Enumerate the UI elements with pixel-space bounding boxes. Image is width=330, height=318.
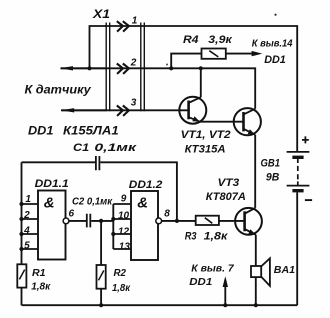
wire: VT3 emitter to speaker: [255, 235, 257, 266]
capacitor C1 plates: [96, 156, 100, 170]
svg-text:10: 10: [118, 211, 130, 222]
node: junction feedback / pin 8: [175, 219, 179, 223]
arrow: К датчику upper arrowhead: [60, 66, 73, 70]
svg-text:1,8к: 1,8к: [112, 282, 131, 294]
gate DD1.2 body: [131, 191, 158, 260]
connector X1 contact chevrons pin 3: [117, 106, 123, 116]
svg-text:3: 3: [131, 98, 137, 109]
svg-text:R1: R1: [32, 267, 46, 279]
resistor R4 power mark: [209, 51, 218, 57]
svg-text:С2 0,1мк: С2 0,1мк: [72, 196, 113, 207]
svg-text:DD1: DD1: [264, 54, 286, 66]
arrow: К датчику lower arrowhead: [61, 108, 74, 112]
wire: C2 to DD1.2 input bus: [91, 220, 113, 222]
resistor R3 power mark: [205, 218, 213, 224]
speck noise near R4 lead: [166, 64, 168, 66]
gate DD1.1 pin stubs: [22, 204, 39, 249]
svg-text:1,8к: 1,8к: [31, 281, 51, 293]
svg-text:3,9к: 3,9к: [208, 34, 233, 46]
svg-text:GB1: GB1: [261, 157, 281, 169]
node: R2 on bottom rail: [99, 303, 103, 307]
wire: bottom rail: [22, 304, 298, 306]
connector X1 contact chevrons pin 2: [117, 64, 123, 74]
svg-text:BA1: BA1: [274, 264, 295, 276]
resistor R4 leads: [171, 54, 252, 69]
svg-text:К выв. 7: К выв. 7: [191, 263, 235, 275]
connector X1 left double line: [106, 23, 110, 112]
wire: R2 to bottom rail: [100, 289, 102, 306]
wire: net 1 top rail from connector corner to battery +: [90, 26, 298, 151]
svg-text:С1: С1: [73, 142, 89, 154]
svg-text:2: 2: [23, 210, 30, 221]
gate DD1.1 output inversion circle pin 6: [63, 218, 69, 224]
svg-text:13: 13: [119, 241, 131, 252]
gate DD1.2 pin stubs: [113, 204, 131, 249]
speck noise top right: [274, 14, 276, 16]
gate DD1.1 body: [38, 191, 66, 260]
wire: R3 to VT3 base: [219, 220, 245, 222]
svg-text:4: 4: [23, 226, 30, 237]
speaker BA1 body: [251, 266, 261, 277]
wire: net 2 horizontal to VT2 collector corner: [61, 68, 255, 109]
wire: pin 6 to C2: [69, 220, 86, 222]
wire: VT2 emitter down to VT3 collector: [254, 135, 256, 208]
node: junction R4 tap on wire 2: [169, 66, 173, 70]
svg-text:6: 6: [69, 208, 75, 219]
battery GB1 cell 2 short plate: [292, 189, 303, 192]
svg-text:9: 9: [121, 193, 127, 204]
battery GB1 cell 1 long plate: [287, 151, 310, 153]
resistor R2 power mark: [99, 271, 104, 281]
svg-text:&: &: [44, 195, 55, 212]
svg-text:12: 12: [118, 227, 130, 238]
battery GB1 cell 1 short plate: [292, 156, 303, 159]
node: bus junction pin12: [111, 232, 115, 236]
wire: left rail to R1: [21, 162, 23, 264]
transistor VT3: [235, 208, 262, 235]
svg-text:КТ807А: КТ807А: [206, 191, 246, 203]
svg-text:1,8к: 1,8к: [204, 231, 229, 243]
connector X1 contact chevrons pin 1: [117, 21, 129, 116]
svg-text:R2: R2: [114, 267, 127, 279]
wire: speaker to bottom rail: [255, 277, 257, 305]
svg-text:VT3: VT3: [218, 177, 240, 189]
node: pin7 arrow on bottom rail: [223, 303, 227, 307]
battery GB1 minus sign: [305, 199, 312, 201]
svg-text:КТ315А: КТ315А: [185, 144, 226, 156]
node: junction VT1 collector on wire 2: [199, 66, 203, 70]
svg-text:К датчику: К датчику: [25, 82, 93, 96]
svg-text:К155ЛА1: К155ЛА1: [63, 125, 119, 137]
resistor R3 body: [196, 216, 219, 225]
wire: net 3 to VT1 base: [61, 109, 189, 111]
svg-text:DD1: DD1: [28, 125, 53, 137]
resistor R4 body: [202, 49, 226, 59]
wire: pin 8 to R3: [162, 220, 196, 222]
node: junction wire1/wire2 left: [87, 66, 91, 70]
svg-text:9В: 9В: [266, 172, 279, 184]
svg-text:0,1мк: 0,1мк: [94, 142, 138, 154]
gate DD1.2 output inversion circle pin 8: [156, 218, 162, 224]
transistor VT2: [234, 108, 261, 135]
node: pin4 junction: [19, 232, 23, 236]
resistor R1 power mark: [19, 270, 24, 280]
svg-text:R3: R3: [185, 231, 197, 243]
svg-text:1: 1: [132, 15, 138, 26]
svg-text:8: 8: [164, 209, 170, 220]
connector X1 right double line: [141, 23, 145, 112]
speaker BA1 horn: [261, 258, 270, 286]
node: bus junction pin10: [111, 217, 115, 221]
wire: top feedback rail with C1: [22, 162, 177, 221]
wire: R2 drop: [100, 221, 102, 265]
svg-text:2: 2: [130, 58, 137, 69]
svg-text:DD1.2: DD1.2: [129, 179, 163, 191]
svg-text:X1: X1: [92, 7, 111, 21]
resistor R2 body: [97, 265, 106, 289]
capacitor C2 plates: [87, 214, 91, 228]
arrow: К выв.7 DD1 up arrow: [224, 280, 226, 306]
gate DD1.2 input bus: [112, 204, 114, 249]
battery GB1 dashed link: [297, 159, 299, 186]
node: pin2 junction: [19, 217, 23, 221]
svg-text:К выв.14: К выв.14: [252, 38, 293, 50]
resistor R1 body: [17, 264, 26, 287]
battery GB1 cell 2 long plate: [287, 185, 310, 187]
svg-text:1: 1: [25, 194, 31, 205]
wire: VT1 emitter to VT2 base: [200, 121, 244, 123]
node: pin5 junction: [19, 247, 23, 251]
battery GB1 plus sign: [302, 136, 309, 143]
wire: R1 to bottom rail: [21, 288, 23, 306]
svg-text:VT1, VT2: VT1, VT2: [181, 129, 231, 141]
wire: battery minus to bottom rail: [296, 192, 298, 305]
transistor VT1: [179, 68, 206, 123]
node: pin1 junction: [19, 202, 23, 206]
node: junction C2 / R2: [99, 219, 103, 223]
svg-text:DD1.1: DD1.1: [35, 178, 69, 190]
svg-text:5: 5: [24, 241, 30, 252]
node: speaker on bottom rail: [254, 303, 258, 307]
svg-text:&: &: [137, 195, 148, 212]
svg-text:R4: R4: [183, 34, 199, 46]
svg-text:DD1: DD1: [189, 276, 212, 288]
arrow: К выв.14 DD1: [252, 51, 263, 56]
